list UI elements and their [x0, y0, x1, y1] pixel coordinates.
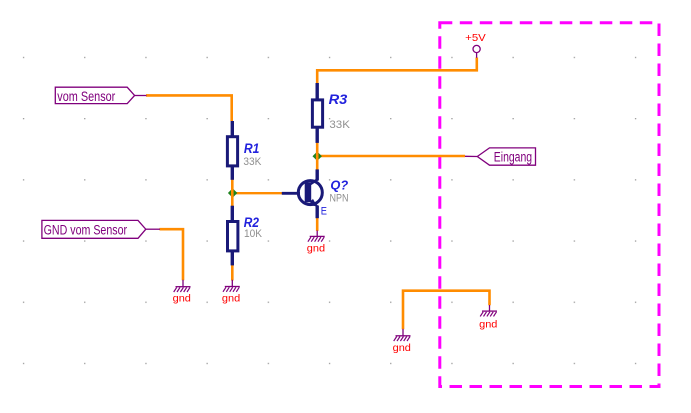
transistor Q1 NPN [282, 169, 349, 218]
flag label "vom Sensor" [55, 87, 146, 104]
junction node at R1/R2/base [228, 188, 237, 197]
svg-text:R1: R1 [244, 141, 260, 156]
resistor R1 [227, 121, 262, 180]
wire node to transistor base [232, 192, 282, 194]
wire R2 bottom to gnd [231, 265, 234, 281]
svg-text:gnd: gnd [479, 318, 497, 330]
svg-text:Q?: Q? [330, 178, 348, 192]
resistor R2 [228, 206, 263, 266]
wire from vom Sensor flag to R1 top [146, 95, 232, 121]
svg-text:gnd: gnd [393, 342, 411, 354]
resistor R3 [312, 83, 350, 143]
wire GND vom Sensor flag to gnd [160, 229, 184, 280]
flag label "Eingang" [465, 148, 536, 165]
svg-text:33K: 33K [329, 119, 350, 131]
svg-text:vom Sensor: vom Sensor [57, 89, 115, 104]
junction node at R3/collector/Eingang [313, 152, 322, 161]
svg-text:gnd: gnd [173, 293, 191, 305]
svg-text:E: E [321, 206, 327, 218]
ground symbol g3 (below emitter) [307, 230, 325, 254]
wire R3 bottom to node to collector [316, 143, 319, 170]
svg-text:+5V: +5V [465, 32, 486, 44]
svg-text:10K: 10K [244, 228, 263, 240]
svg-text:GND vom Sensor: GND vom Sensor [44, 223, 128, 238]
wire R1 bottom to node and to R2 top [231, 180, 234, 207]
svg-text:gnd: gnd [307, 243, 325, 255]
dashed highlight region box [440, 23, 659, 387]
wire emitter to gnd [316, 218, 319, 231]
flag label "GND vom Sensor" [42, 220, 160, 238]
+5V supply symbol [465, 32, 486, 58]
ground symbol g1 (below GND vom Sensor wire) [173, 280, 191, 305]
svg-text:R3: R3 [329, 92, 348, 107]
svg-text:33K: 33K [243, 156, 262, 168]
ground symbol g5 (bottom right of pair) [479, 305, 497, 330]
wire between two bottom gnd symbols [403, 291, 490, 330]
ground symbol g2 (below R2) [222, 280, 240, 305]
svg-text:Eingang: Eingang [494, 149, 532, 164]
svg-text:NPN: NPN [330, 193, 349, 205]
wire node to Eingang flag [317, 155, 465, 158]
wire +5V to R3 top [317, 58, 477, 84]
ground symbol g4 (bottom left of pair) [393, 329, 411, 354]
svg-text:gnd: gnd [222, 293, 240, 305]
